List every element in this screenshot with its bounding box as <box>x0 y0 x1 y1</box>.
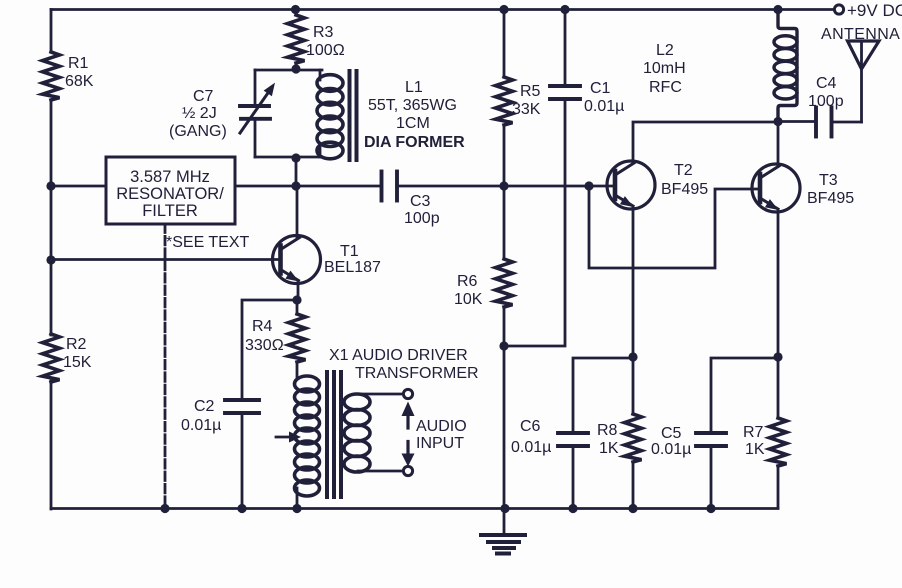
svg-text:C2: C2 <box>194 398 215 415</box>
wire left rail to resonator box <box>51 185 106 188</box>
audio input arrows and label <box>402 402 467 467</box>
svg-text:(GANG): (GANG) <box>169 123 227 140</box>
svg-text:T1: T1 <box>340 243 359 260</box>
resistor R6 <box>454 186 513 508</box>
svg-text:0.01µ: 0.01µ <box>181 417 221 434</box>
svg-text:RFC: RFC <box>649 79 682 96</box>
svg-text:BEL187: BEL187 <box>324 259 381 276</box>
antenna <box>821 26 900 122</box>
node tank top <box>291 64 300 73</box>
wire left rail middle <box>50 100 53 335</box>
svg-text:R3: R3 <box>313 24 334 41</box>
node L2/C4/collector junction <box>773 117 782 126</box>
node L2 top rail <box>773 5 782 14</box>
svg-text:R2: R2 <box>66 336 87 353</box>
wire secondary bottom lead <box>358 470 403 473</box>
wire T1 collector <box>296 186 299 238</box>
wire T2 collector up and over to L2 node <box>633 122 778 162</box>
node left rail T1 base tap <box>46 255 55 264</box>
node T1 emitter <box>292 295 301 304</box>
svg-text:0.01µ: 0.01µ <box>584 98 624 115</box>
wire T1 base from left rail <box>51 258 281 261</box>
wire T1 emitter <box>297 282 300 301</box>
transformer X1 core <box>327 372 341 497</box>
wire secondary top lead <box>358 393 403 396</box>
node R5 top rail <box>499 5 508 14</box>
svg-text:R1: R1 <box>68 55 89 72</box>
svg-text:C7: C7 <box>193 88 214 105</box>
wire top supply rail <box>51 8 835 11</box>
node bottom rail C6 <box>568 504 577 513</box>
inductor L2 RFC <box>643 10 797 122</box>
resonator/filter block <box>106 157 235 224</box>
svg-text:*SEE TEXT: *SEE TEXT <box>166 234 250 251</box>
resistor R4 <box>245 300 306 378</box>
svg-text:L2: L2 <box>656 42 674 59</box>
wire T3 collector up <box>777 122 780 166</box>
svg-text:68K: 68K <box>65 73 94 90</box>
node R6 bottom / C1 return <box>499 341 508 350</box>
node bottom rail C2 <box>237 504 246 513</box>
svg-text:ANTENNA: ANTENNA <box>821 26 900 43</box>
svg-text:100p: 100p <box>808 93 844 110</box>
node C1 top rail <box>560 5 569 14</box>
wire T3 emitter down <box>777 210 780 358</box>
transformer X1 label <box>329 347 479 382</box>
svg-text:BF495: BF495 <box>661 181 708 198</box>
svg-text:TRANSFORMER: TRANSFORMER <box>355 365 479 382</box>
capacitor C4 <box>778 75 862 137</box>
ground symbol <box>481 508 525 554</box>
node tank bottom <box>291 153 300 162</box>
wire left rail upper <box>50 10 53 53</box>
svg-text:1CM: 1CM <box>396 115 430 132</box>
wire T2 emitter down <box>632 207 635 358</box>
svg-text:RESONATOR/: RESONATOR/ <box>116 185 224 203</box>
svg-text:X1 AUDIO DRIVER: X1 AUDIO DRIVER <box>329 347 468 364</box>
svg-text:10K: 10K <box>454 291 483 308</box>
node C3 left / T1 collector <box>291 181 300 190</box>
svg-text:FILTER: FILTER <box>142 202 198 220</box>
wire tank bottom to C3 node <box>295 158 298 186</box>
capacitor C1 <box>504 10 624 347</box>
svg-text:C5: C5 <box>661 425 682 442</box>
transistor T1 <box>273 236 382 284</box>
node R5/R6 column crossing <box>499 181 508 190</box>
svg-text:15K: 15K <box>63 354 92 371</box>
svg-text:R5: R5 <box>520 83 541 100</box>
resistor R3 <box>288 10 345 71</box>
svg-text:BF495: BF495 <box>807 190 854 207</box>
audio input terminal bottom <box>403 466 412 475</box>
node bottom rail transformer <box>292 504 301 513</box>
transistor T3 <box>752 164 854 212</box>
svg-text:10mH: 10mH <box>643 60 686 77</box>
svg-text:1K: 1K <box>745 441 765 458</box>
wire tank bottom side <box>255 156 322 159</box>
node C5/R7 junction <box>773 352 782 361</box>
svg-text:R8: R8 <box>597 422 618 439</box>
svg-text:DIA FORMER: DIA FORMER <box>364 134 465 151</box>
svg-text:0.01µ: 0.01µ <box>511 439 551 456</box>
svg-text:R6: R6 <box>457 273 478 290</box>
node T2 base junction <box>584 181 593 190</box>
svg-text:55T, 365WG: 55T, 365WG <box>368 97 457 114</box>
wire C3 to T2 base <box>397 185 615 188</box>
capacitor C7 (variable, gang) <box>169 70 275 157</box>
node bottom rail R8 <box>628 504 637 513</box>
svg-text:100Ω: 100Ω <box>306 42 345 59</box>
svg-text:C3: C3 <box>410 193 431 210</box>
resistor R5 <box>496 10 541 187</box>
svg-text:C1: C1 <box>590 80 611 97</box>
inductor L1 <box>317 70 465 160</box>
svg-text:+9V DC: +9V DC <box>847 1 902 20</box>
wire left rail lower <box>50 381 53 509</box>
svg-text:1K: 1K <box>599 440 619 457</box>
svg-text:0.01µ: 0.01µ <box>651 441 691 458</box>
wire bottom ground rail <box>51 507 778 510</box>
svg-text:330Ω: 330Ω <box>245 337 284 354</box>
svg-text:T2: T2 <box>674 162 693 179</box>
resistor R8 <box>597 357 642 508</box>
resistor R1 <box>43 52 94 100</box>
svg-text:½ 2J: ½ 2J <box>182 105 217 122</box>
svg-text:L1: L1 <box>405 79 423 96</box>
wire T2 base link down-around to T3 base <box>589 186 760 268</box>
svg-text:100p: 100p <box>404 210 440 227</box>
svg-text:INPUT: INPUT <box>416 435 464 452</box>
svg-text:T3: T3 <box>819 172 838 189</box>
+9V DC terminal <box>834 1 902 20</box>
node bottom rail C5 <box>706 504 715 513</box>
svg-text:R4: R4 <box>252 318 273 335</box>
svg-text:AUDIO: AUDIO <box>416 418 467 435</box>
node left rail resonator tap <box>46 181 55 190</box>
svg-text:R7: R7 <box>743 424 764 441</box>
resistor R2 <box>43 334 92 382</box>
transformer X1 tap arrow <box>276 432 301 443</box>
node bottom rail ground stem <box>500 504 509 513</box>
transformer X1 secondary winding <box>344 394 370 472</box>
resistor R7 <box>743 357 787 508</box>
node C6/R8 junction <box>628 352 637 361</box>
wire resonator box to C3 <box>235 185 380 188</box>
node R3 top <box>291 5 300 14</box>
svg-text:C6: C6 <box>520 418 541 435</box>
svg-text:3.587 MHz: 3.587 MHz <box>130 168 210 186</box>
capacitor C2 <box>181 398 259 508</box>
capacitor C3 <box>382 172 440 228</box>
svg-text:33K: 33K <box>512 101 541 118</box>
transformer X1 primary winding <box>295 376 320 508</box>
node bottom rail dashed link <box>160 504 169 513</box>
wire emitter node to C2 <box>242 300 297 400</box>
capacitor C6 <box>511 358 633 508</box>
audio input terminal top <box>403 389 412 398</box>
svg-text:C4: C4 <box>816 75 837 92</box>
transistor T2 <box>607 161 708 209</box>
capacitor C5 <box>651 358 778 508</box>
wire tank top side <box>255 69 322 72</box>
dashed tuning link wire <box>164 224 167 506</box>
